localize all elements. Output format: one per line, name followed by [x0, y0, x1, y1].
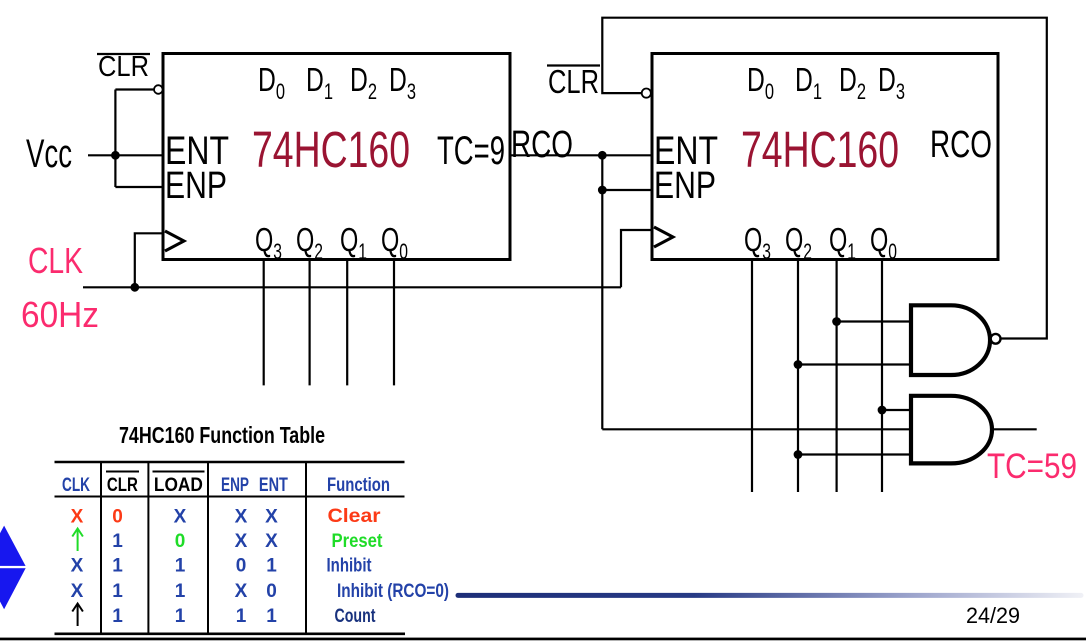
U1 clock chevron	[165, 231, 184, 251]
wire U2 Q2 stub	[797, 260, 799, 492]
gradient divider line	[456, 593, 1084, 598]
wire U2 Q1 stub	[835, 260, 837, 492]
wire U1 Q0 stub	[393, 260, 395, 385]
svg-text:1: 1	[236, 606, 247, 627]
svg-text:X: X	[71, 556, 84, 577]
wire Vcc lead	[88, 154, 163, 156]
gate NAND (tens reset)	[911, 305, 990, 375]
wire CLK to U1 clock	[135, 233, 163, 287]
svg-text:1: 1	[112, 556, 123, 577]
svg-text:CLR: CLR	[98, 51, 149, 83]
wire RCO1 down feed	[601, 155, 603, 429]
junction CLK / U1 clock	[130, 283, 139, 292]
svg-text:ENP: ENP	[165, 165, 227, 207]
wire AND output	[992, 428, 1037, 430]
svg-text:ENP: ENP	[221, 475, 249, 496]
blue nav arrow	[0, 526, 26, 610]
junction CLR tie / Vcc	[111, 151, 120, 160]
svg-text:RCO: RCO	[511, 124, 573, 166]
svg-text:1: 1	[112, 531, 123, 552]
wire to U2 ENP	[602, 189, 652, 191]
svg-text:1: 1	[112, 606, 123, 627]
U1 pin labels D0 D1 D2 D3	[258, 61, 416, 104]
svg-text:ENP: ENP	[654, 165, 716, 207]
wire NAND output feedback loop	[602, 18, 1047, 339]
wire CLK main line	[83, 286, 621, 288]
table row 3: Inhibit	[71, 556, 372, 577]
svg-text:Clear: Clear	[328, 506, 382, 527]
U2 pin labels D0 D1 D2 D3	[747, 61, 905, 104]
wire Q0 to AND input 1	[882, 409, 911, 411]
junction Q2 / NAND in2	[794, 360, 803, 369]
svg-text:TC=59: TC=59	[987, 447, 1077, 486]
svg-text:CLR: CLR	[107, 475, 138, 496]
U2 CLR inversion bubble	[642, 89, 651, 98]
svg-text:X: X	[71, 507, 84, 528]
svg-text:74HC160: 74HC160	[252, 121, 410, 178]
svg-text:X: X	[235, 581, 248, 602]
svg-text:Vcc: Vcc	[26, 132, 72, 176]
wire U1 Q2 stub	[309, 260, 311, 385]
svg-text:LOAD: LOAD	[154, 475, 203, 496]
NAND output bubble	[991, 334, 1001, 344]
svg-text:CLK: CLK	[28, 240, 83, 281]
junction RCO1 / ENT2	[598, 151, 607, 160]
svg-text:RCO: RCO	[930, 124, 992, 166]
wire CLK to U2 clock	[621, 230, 652, 287]
table row 1: Clear	[71, 506, 382, 528]
svg-text:X: X	[265, 531, 278, 552]
svg-text:60Hz: 60Hz	[21, 294, 99, 335]
svg-text:X: X	[235, 507, 248, 528]
junction Q2 / AND in3	[794, 450, 803, 459]
wire Q2 to AND input 3	[798, 453, 911, 455]
wire Q2 to NAND input 2	[798, 363, 911, 365]
wire to U1 CLR bubble	[115, 88, 153, 90]
junction Q1 / NAND in1	[832, 317, 841, 326]
svg-text:1: 1	[266, 556, 277, 577]
svg-text:0: 0	[266, 581, 277, 602]
svg-text:Inhibit (RCO=0): Inhibit (RCO=0)	[337, 581, 449, 602]
svg-text:ENT: ENT	[259, 475, 288, 496]
wire U2 Q3 stub	[751, 260, 753, 492]
svg-text:Count: Count	[335, 606, 376, 627]
svg-text:1: 1	[175, 606, 186, 627]
wire U2 Q0 stub	[881, 260, 883, 492]
row 2 green clock edge arrow	[72, 529, 83, 552]
U2 pin labels Q3 Q2 Q1 Q0	[744, 221, 897, 264]
svg-text:X: X	[174, 507, 187, 528]
wire to U1 ENP	[115, 186, 163, 188]
U1 pin labels Q3 Q2 Q1 Q0	[255, 221, 408, 264]
svg-text:0: 0	[236, 556, 247, 577]
svg-text:X: X	[265, 507, 278, 528]
svg-text:1: 1	[175, 581, 186, 602]
wire U1 Q1 stub	[346, 260, 348, 385]
svg-text:74HC160 Function Table: 74HC160 Function Table	[119, 422, 325, 448]
svg-text:24/29: 24/29	[966, 603, 1020, 628]
wire U1 Q3 stub	[263, 260, 265, 385]
counter U1 74HC160 box	[163, 54, 510, 260]
wire CLR/ENP tie vertical	[114, 90, 116, 188]
wire Q1 to NAND input 1	[837, 320, 911, 322]
svg-text:X: X	[71, 581, 84, 602]
table row 2: Preset	[112, 531, 383, 552]
gate AND (TC=59)	[911, 396, 992, 464]
junction Q0 / AND in1	[878, 406, 887, 415]
table row 4: Inhibit (RCO=0)	[71, 581, 449, 602]
svg-text:CLK: CLK	[62, 475, 90, 496]
table borders	[55, 461, 406, 634]
svg-text:0: 0	[112, 507, 123, 528]
bottom rule	[0, 638, 1086, 641]
svg-text:1: 1	[266, 606, 277, 627]
svg-text:1: 1	[112, 581, 123, 602]
U2 clock chevron	[654, 227, 673, 247]
svg-text:Inhibit: Inhibit	[327, 556, 373, 577]
svg-text:0: 0	[175, 531, 186, 552]
svg-text:Function: Function	[327, 475, 390, 496]
svg-text:1: 1	[175, 556, 186, 577]
junction RCO1 / ENP2	[598, 186, 607, 195]
table row 5: Count	[112, 606, 376, 627]
svg-text:74HC160: 74HC160	[741, 121, 899, 178]
wire RCO1 to U2 ENT	[510, 154, 652, 156]
counter U2 74HC160 box	[652, 54, 998, 260]
svg-text:X: X	[235, 531, 248, 552]
row 5 black clock edge arrow	[72, 604, 83, 627]
header overlines for CLR and LOAD	[106, 471, 139, 473]
svg-text:Preset: Preset	[332, 531, 384, 552]
table header row	[62, 475, 390, 496]
U1 CLR inversion bubble	[154, 85, 163, 94]
svg-text:TC=9: TC=9	[437, 129, 505, 173]
svg-text:CLR: CLR	[548, 63, 599, 100]
wire RCO1 to AND input	[602, 428, 911, 430]
